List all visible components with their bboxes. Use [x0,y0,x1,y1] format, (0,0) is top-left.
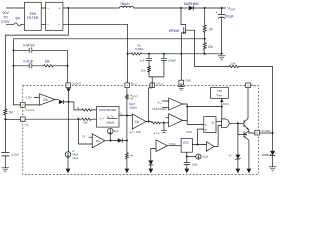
pin CAout [150,83,155,88]
OSC box [181,139,192,153]
svg-text:250µA: 250µA [129,105,137,109]
diode D2 1N5818 [272,133,274,151]
svg-text:R: R [205,129,207,132]
multiplier output wire [119,115,132,117]
node IAC [4,118,6,120]
wire to IAC pin [5,118,20,120]
svg-text:270V: 270V [1,20,10,24]
node cap top [221,7,223,9]
svg-text:RUN: RUN [187,130,193,134]
svg-text:TO: TO [3,16,8,20]
capacitor 100pF [161,54,167,77]
buffer [207,142,214,152]
OSC out to latch R and buffer [192,129,206,144]
capacitor C4 4.7nF [1,152,9,167]
svg-text:100pF: 100pF [168,59,177,63]
svg-text:8µA: 8µA [114,129,119,133]
current source 8uA [108,128,114,134]
pin GND [179,80,184,85]
wire comp net to VAout pin [67,65,69,67]
shunt rail / resistor RS 0.05 [127,53,129,55]
latch RS [204,117,216,133]
svg-text:5V: 5V [229,155,232,158]
pin IAC [21,117,26,122]
pin Mout [125,83,130,88]
svg-text:FILTER: FILTER [27,16,39,20]
multiplier block [97,106,120,127]
wire VCC pin down [247,88,249,118]
capacitor C3 100uF output [218,8,225,54]
node gate drive [272,132,274,134]
diode after EA [55,99,59,101]
svg-text:7V: 7V [82,135,86,139]
svg-text:10k: 10k [141,68,146,72]
capacitor 1nF [146,54,152,66]
resistor R5 10k gate [229,65,273,133]
wire input top [6,7,25,9]
svg-text:7.5V: 7.5V [217,89,223,93]
ground arrow driver [247,169,252,174]
CA output node [146,121,152,123]
capacitor C2 0.47uF [12,65,14,67]
resistor R1 1M (IAC feed) [4,109,7,115]
resistor R3 1M divider top [203,8,206,39]
svg-text:MURH860: MURH860 [184,2,199,6]
svg-text:1M: 1M [208,28,213,32]
wire bridge+ to top rail [63,7,120,9]
svg-text:4.7V: 4.7V [154,132,160,136]
gate wire to driver [186,30,229,66]
comparator PKLIM [169,98,183,110]
svg-text:gm = 1/5k: gm = 1/5k [129,130,141,134]
pin GTDRV [255,130,260,135]
node VSENSE rail [13,39,204,105]
OSC timing: 20uA source and 20pF cap [186,152,188,162]
svg-text:90V: 90V [3,11,10,15]
driver transistor Q3 PNP [244,131,249,169]
node divider top [204,7,206,9]
diode D1 MURH860 [189,6,194,11]
resistor Mout internal [126,88,129,116]
svg-text:IRF840: IRF840 [169,29,180,33]
resistor R2 33k [44,65,68,67]
svg-text:44µA: 44µA [72,152,78,156]
svg-text:100µF: 100µF [225,15,234,19]
wire VAout pin internal with arrow [68,92,70,102]
svg-text:20µA: 20µA [202,155,208,159]
wire driver out to GTDRV [249,130,255,133]
resistor R4 20k divider bottom [203,39,206,54]
svg-text:0.47µF: 0.47µF [24,59,34,63]
wire bridge minus [63,24,128,54]
resistor 4k [126,153,129,169]
svg-text:MAX: MAX [129,102,135,106]
input source label [1,11,10,24]
op-amp EA [39,94,55,106]
svg-text:OSC: OSC [183,141,189,145]
wire Io node down [126,116,128,153]
svg-text:GND: GND [185,78,191,82]
driver transistor Q2 NPN [244,117,249,129]
resistor IB input 30k [25,118,96,120]
IC dashed box LT1248 [23,85,259,174]
svg-text:IF1: IF1 [96,139,100,143]
capacitor C1 0.047uF [12,49,14,51]
wire diode to Vout [193,7,226,9]
AND gate [222,119,230,128]
capacitor 20pF [184,162,190,168]
gnd symbol inside [178,85,185,90]
AND out to driver [230,123,244,134]
EMI filter block [25,2,42,30]
svg-text:1N5818: 1N5818 [262,153,272,157]
wire comp bottoms to CAout pin [149,77,164,83]
ground arrow [125,169,130,174]
svg-text:1nF: 1nF [140,58,145,62]
wire EMI to bridge [41,8,46,24]
wire GTDRV pin to node [260,132,273,134]
svg-text:MULT(MAX): MULT(MAX) [153,107,167,111]
RUN rail [187,98,222,119]
inductor L1 750uH [120,6,134,8]
svg-text:7.5V: 7.5V [26,96,32,100]
wire + node down-left loop [5,8,68,109]
resistor 10k (CA comp) [148,66,151,77]
fuse F1 5A [6,23,25,26]
resistor CA to comparator [152,122,169,124]
svg-text:+: + [216,11,218,15]
ground at output cap [221,53,223,55]
comparator PWM [169,114,183,127]
Vref box [211,87,229,98]
wire inductor to diode [134,7,188,9]
svg-text:30k: 30k [83,121,88,125]
svg-text:RUN: RUN [223,102,229,106]
svg-text:1M: 1M [8,111,13,115]
node drain [180,7,182,9]
node rs right / caps [148,53,150,55]
comparator outputs to latch [183,104,204,124]
svg-text:20k: 20k [208,45,214,49]
svg-text:4.7nF: 4.7nF [11,153,19,157]
node bridge+ [67,7,69,9]
svg-text:0.05Ω: 0.05Ω [135,47,144,51]
sync comparator [156,140,167,151]
ground arrow [66,169,71,174]
4.7V reference [161,123,167,133]
sync lower input diode [151,149,156,161]
svg-text:GTDRV: GTDRV [261,129,271,133]
ground [269,167,276,171]
svg-text:22µA: 22µA [72,156,78,160]
transistor Q1 IRF840 [181,8,186,80]
ground [2,168,9,172]
pin VCC [246,83,251,88]
op-amp IF1 [92,134,105,148]
svg-text:VAOUT: VAOUT [72,82,81,87]
svg-text:750µH: 750µH [120,2,130,6]
pin VSENSE [21,103,26,108]
svg-text:MULTIPLIER: MULTIPLIER [99,108,116,112]
IF1 output diode [105,140,118,142]
svg-text:200µA: 200µA [107,121,115,125]
op-amp CA [132,114,146,129]
wire EA node down to current source [68,102,70,152]
svg-text:5A: 5A [16,17,21,21]
svg-text:10k: 10k [231,62,236,66]
pin numbers [22,83,258,135]
svg-text:20pF: 20pF [192,163,198,167]
current source I2 [65,152,71,158]
pin VAout [66,83,71,88]
svg-text:33k: 33k [45,59,51,63]
resistor IA input [74,102,97,111]
svg-text:0.047µF: 0.047µF [23,44,35,48]
bridge rectifier BR1 [46,2,63,30]
